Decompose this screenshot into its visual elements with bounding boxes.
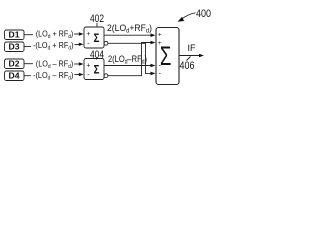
svg-text:2(LOd+RFd): 2(LOd+RFd) [107, 23, 152, 35]
wire row3 into summer 404 [74, 63, 80, 65]
input box D2 [5, 59, 25, 69]
svg-text:400: 400 [196, 8, 211, 20]
svg-text:406: 406 [180, 60, 195, 72]
svg-text:Σ: Σ [94, 31, 100, 45]
inverting bubble on summer 404 output [104, 74, 108, 78]
wire D2 stub [24, 63, 33, 65]
svg-text:+: + [158, 40, 162, 47]
output adder (large sigma) [156, 28, 179, 85]
svg-text:+: + [86, 63, 90, 70]
svg-text:D4: D4 [9, 72, 20, 81]
svg-text:Σ: Σ [94, 63, 100, 77]
input box D1 [5, 30, 25, 40]
summer 404 [84, 59, 104, 80]
wire summer 404 inverted output up to adder input 2 [108, 43, 151, 76]
wire D4 stub [24, 75, 31, 77]
svg-text:D1: D1 [9, 31, 20, 40]
svg-text:IF: IF [188, 43, 196, 53]
wire row4 into summer 404 [75, 74, 81, 76]
wire summer 404 plain output to adder input 3 [104, 65, 151, 67]
svg-text:+: + [86, 31, 90, 38]
input box D3 [5, 42, 25, 52]
svg-text:D2: D2 [9, 60, 20, 69]
svg-text:D3: D3 [9, 43, 20, 52]
leader 402 [96, 23, 98, 27]
wire D3 stub [24, 46, 31, 48]
wire D1 stub [24, 34, 33, 36]
leader 404 [96, 58, 98, 60]
node IF output wire [179, 55, 200, 57]
summer 402 [84, 27, 104, 48]
inverting bubble on summer 402 output [104, 41, 108, 45]
svg-text:+: + [158, 31, 162, 38]
wire row2 into summer 402 [75, 44, 81, 46]
figure reference arrow 400 [178, 13, 196, 22]
input box D4 [5, 71, 25, 81]
wire row1 into summer 402 [74, 33, 80, 35]
wire summer 402 plain output to adder input 1 [104, 34, 151, 36]
leader 406 [187, 57, 191, 61]
svg-text:404: 404 [90, 49, 104, 61]
wire summer 402 inverted output down to adder input 4 [108, 43, 151, 73]
